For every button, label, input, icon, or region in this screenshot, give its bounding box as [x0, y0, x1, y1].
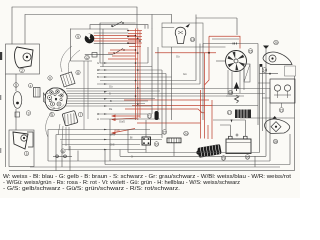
svg-text:G/S: G/S [110, 143, 115, 147]
wire vert x78 [77, 151, 79, 162]
middle vertical drops [48, 29, 255, 171]
headlamp 5 outer lumpy [45, 88, 67, 111]
red wires from rotary [94, 36, 140, 60]
headlamp bulb a [50, 91, 53, 94]
wire red r5 [110, 49, 136, 51]
label 9 [76, 34, 81, 39]
horn 2 dot [26, 56, 28, 58]
fuse box narrow [244, 64, 250, 82]
headlamp ticks [47, 92, 64, 108]
regulator stems [274, 91, 291, 98]
wire red x200 [200, 90, 202, 139]
wire red rung 4 [128, 39, 142, 41]
label 21 [279, 108, 284, 113]
connector row symbols [53, 155, 72, 157]
wire [243, 66, 245, 90]
label 11 [147, 114, 152, 119]
coil end cap [196, 150, 200, 154]
wire rail x262.3 [261, 67, 263, 131]
wire y73.7 link [260, 73, 279, 75]
label 24 [184, 131, 189, 136]
contact dot [113, 52, 115, 54]
fuel gauge cross [178, 31, 183, 34]
flasher relay 24 [167, 138, 181, 143]
bottom nest rows [9, 153, 295, 171]
label 7 [78, 112, 83, 117]
svg-text:25: 25 [274, 140, 278, 144]
wire red vertical v3 [139, 31, 141, 119]
wire row y161 [48, 160, 270, 162]
rotary light switch [85, 34, 94, 43]
wire row y63 [100, 62, 148, 64]
red middle rows [112, 100, 212, 133]
svg-text:W/R: W/R [114, 129, 121, 133]
left outer vertical [5, 74, 7, 167]
svg-text:H: H [97, 117, 99, 121]
wire top frame 2 [25, 14, 172, 16]
battery plus [236, 134, 239, 137]
fuse diagonal [244, 64, 250, 82]
wire red rung 3 [128, 36, 142, 38]
label 4 [28, 83, 32, 87]
wire [94, 43, 136, 45]
wire row y88 [66, 88, 270, 90]
brake box bottom left [9, 130, 34, 167]
tail lamp link y43.5 [203, 43, 258, 45]
wire red r6 [108, 52, 138, 54]
wire vert x48 [47, 130, 49, 162]
headlamp bulb c [60, 94, 63, 97]
wire vert x146 low2 [145, 145, 147, 153]
wire row y101 [67, 100, 149, 102]
label 20 [274, 40, 279, 45]
junction dot [269, 73, 271, 75]
brake bracket [27, 132, 33, 147]
label 3b [24, 151, 29, 156]
wire red rung 6 [129, 46, 141, 48]
edge tear mark 2 [0, 95, 1, 100]
rear lamp housing 19 [263, 52, 292, 64]
headlamp bulb i [49, 99, 51, 101]
switch contact S2 [114, 49, 123, 55]
wire red rung 5 [128, 42, 142, 44]
up arrow dark [273, 116, 277, 119]
left inner vertical [15, 74, 17, 130]
headlamp bracket [44, 93, 46, 103]
label 22 [162, 130, 167, 135]
label 18 [228, 90, 233, 95]
label 16 [245, 155, 250, 160]
junction dot [208, 52, 210, 54]
wire vert x105 [104, 150, 106, 165]
wire rail x196 [195, 15, 197, 81]
wire red row y105 [132, 105, 212, 107]
fuel gauge arrow [186, 24, 191, 28]
svg-text:S: S [131, 155, 133, 159]
wire [136, 7, 138, 29]
wire reg links [258, 83, 270, 98]
label 15 [248, 49, 253, 54]
wire row y149 [65, 149, 146, 151]
wire [151, 15, 153, 29]
wire row y73 [97, 73, 166, 75]
wire rail x259.5 [259, 67, 261, 153]
svg-text:5: 5 [51, 113, 53, 117]
wire vert x128 [127, 130, 129, 153]
CDI wires below flywheel [226, 66, 244, 96]
label small circle [61, 149, 65, 153]
wire red y53 [155, 52, 216, 54]
tail lamp 20 small dark [263, 46, 269, 50]
wire row y66 [100, 66, 152, 68]
bottom frame line a [30, 166, 280, 168]
label 12 [85, 55, 90, 60]
striped box 17 [235, 110, 251, 119]
battery 16 [226, 139, 251, 154]
tail lamp link y47 [203, 46, 226, 48]
svg-text:Gü: Gü [176, 55, 180, 59]
red arrowhead c [111, 132, 116, 135]
wire row y77 [100, 76, 172, 78]
stripes [238, 110, 247, 119]
label 5 [50, 112, 55, 117]
svg-text:9: 9 [77, 35, 79, 39]
wire row labels left [97, 55, 187, 159]
wire row y106 [65, 105, 152, 107]
label 6 [48, 76, 52, 80]
wire red r1 [94, 35, 136, 37]
label 14 [262, 68, 267, 73]
wire vert x152 [151, 29, 153, 115]
svg-text:G: G [97, 61, 99, 65]
junction dots on ladder [127, 30, 141, 105]
wire red vertical v1 [135, 29, 137, 121]
wire [94, 32, 128, 34]
bottom frame line b [9, 170, 295, 172]
wire vert x255 [254, 156, 256, 167]
regulator coil b [284, 85, 290, 91]
label 19 [221, 156, 226, 161]
headlamp bulb g [54, 93, 56, 95]
wire vert x148 [147, 47, 149, 63]
headlamp inner arc a [49, 88, 63, 92]
regulator stem down [281, 103, 283, 107]
wire red r2 [94, 37, 138, 39]
wire rail x266 [265, 47, 267, 156]
wire row y93 [67, 93, 265, 95]
wire red r3 [94, 40, 140, 42]
svg-text:S: S [109, 92, 111, 96]
label 8 [76, 70, 80, 74]
headlamp inner arc b [48, 105, 64, 109]
battery wire a [220, 125, 230, 136]
label 2 [20, 68, 25, 73]
label 1 [14, 83, 19, 88]
svg-text:6: 6 [49, 77, 51, 81]
svg-text:24: 24 [184, 132, 188, 136]
wire red x212 [211, 100, 213, 139]
wire vert x171 [171, 47, 173, 120]
wire vert x162 [161, 70, 163, 138]
wire y118 [240, 117, 295, 119]
wire rail x294.5 [294, 76, 296, 171]
battery inner line [226, 142, 251, 144]
wire row y80 [100, 80, 196, 82]
wire row y134 [56, 134, 162, 136]
svg-text:2: 2 [21, 69, 23, 73]
wire rail x203 [202, 44, 204, 121]
connector circle b [64, 155, 67, 158]
contact dot [123, 49, 125, 51]
headlamp bulb f [57, 102, 61, 106]
flasher hatch [169, 138, 179, 143]
wire row y70 [97, 69, 162, 71]
wire red coil feed [207, 125, 209, 139]
headlamp inner small dots [49, 91, 62, 105]
wire row y164 [105, 164, 290, 166]
wire right top link [196, 18, 237, 35]
box 4 hatch [36, 88, 39, 98]
square dots [143, 138, 149, 144]
wire row y103 [66, 103, 145, 105]
wire row y98 [67, 98, 155, 100]
wire row y91 [67, 90, 161, 92]
wire vert x120 [119, 150, 121, 157]
svg-text:B: B [110, 99, 112, 103]
battery terminal a [229, 136, 233, 139]
dark connector square [260, 64, 263, 67]
wire row y114 [97, 113, 152, 115]
wire handlebar top [71, 28, 129, 30]
wire row y152 [128, 152, 260, 154]
wire row y96 [67, 95, 240, 97]
ignition coil dark ribbed [197, 144, 221, 158]
fin dot [275, 126, 277, 128]
wire rail x290 [289, 134, 291, 165]
box 4 [34, 88, 41, 98]
row end arrows [104, 62, 107, 150]
edge tear mark 3 [0, 148, 1, 153]
wire flywheel left link [216, 60, 226, 62]
wire red x204 [204, 53, 206, 139]
wire brake contact feed [100, 22, 136, 24]
middle harness rows upper [48, 63, 270, 150]
right rails [240, 44, 295, 171]
label 25 [273, 139, 278, 144]
wire [11, 7, 13, 44]
wire vert x70 [69, 146, 71, 171]
wire rail x200g [199, 44, 201, 85]
label 3 [26, 111, 31, 116]
down arrow [231, 120, 233, 123]
fuel gauge 13 body [175, 27, 185, 43]
red arrowhead b [111, 118, 116, 121]
wire red row y109 [125, 109, 205, 113]
wire red fan a [112, 115, 140, 117]
wire vert x166 [165, 74, 167, 131]
svg-text:15: 15 [249, 50, 253, 54]
wire red diag c [112, 129, 135, 134]
wire lower contact feed [85, 54, 113, 56]
battery wire b [213, 120, 245, 136]
headlamp bulb d [48, 96, 52, 100]
wire [99, 23, 101, 63]
device 8 tilted box [60, 72, 75, 87]
svg-text:- G/S: gelb/schwarz - Gü/S: gr: - G/S: gelb/schwarz - Gü/S: grün/schwarz… [3, 186, 180, 192]
small box below lamp [15, 112, 20, 117]
wire vert x174 [173, 143, 175, 156]
headlamp center dot [55, 98, 57, 100]
svg-text:19: 19 [222, 157, 226, 161]
flywheel magneto 15 [226, 51, 247, 72]
wire row y139 [60, 139, 162, 141]
box fuel gauge 13 [162, 23, 203, 47]
red harness ladder [128, 29, 142, 121]
red arrowhead a [111, 115, 116, 118]
rear lamp ring [269, 55, 276, 62]
brake pedal 3 wedge [13, 132, 28, 149]
svg-text:7: 7 [80, 113, 82, 117]
wire [102, 29, 104, 67]
wire red r7 [112, 55, 136, 57]
contact dot [122, 22, 124, 24]
cable curve a [61, 46, 72, 72]
brake pedal dot [23, 137, 25, 139]
brake pedal ring [21, 135, 27, 141]
wire red row y123 [137, 122, 201, 124]
regulator coil a [274, 85, 280, 91]
right mid rails [196, 15, 237, 121]
wire vert x146 low [145, 120, 147, 137]
wire red r8 [108, 58, 138, 60]
fin lamp 25 [265, 119, 290, 134]
wire row y144 [62, 144, 140, 146]
wire [171, 15, 173, 24]
svg-text:3: 3 [26, 152, 28, 156]
wire red row y100 [124, 99, 209, 101]
flywheel hub [234, 59, 238, 63]
wire [231, 72, 233, 96]
label 13 [190, 37, 195, 42]
wire vert x158 [157, 47, 159, 111]
wire row y84 [97, 83, 200, 85]
headlamp bulb b [56, 90, 59, 93]
svg-text:12: 12 [85, 56, 89, 60]
wire [226, 95, 244, 97]
svg-text:17: 17 [228, 111, 232, 115]
ignition switch 7 tilted [62, 110, 78, 126]
headlamp bulb h [60, 98, 62, 100]
switch 7 drop wires [58, 124, 69, 151]
wire [239, 70, 241, 93]
wire red fan b [112, 118, 137, 120]
rotary white slice [86, 34, 91, 39]
svg-text:20: 20 [274, 41, 278, 45]
wire red vertical x209 [205, 36, 210, 85]
wire rail x258 [257, 44, 259, 126]
horn 2 body [15, 47, 33, 68]
horn box [6, 44, 40, 74]
rear lamp bracket box [285, 66, 296, 76]
wire red flywheel top [209, 36, 240, 48]
wire row y129 [48, 129, 150, 131]
edge tear mark [0, 52, 2, 60]
svg-text:W/S: W/S [110, 133, 115, 137]
wire [227, 70, 229, 95]
connector circle a [56, 155, 59, 158]
svg-text:21: 21 [280, 109, 284, 113]
wire vert x62 [61, 141, 63, 167]
svg-text:10: 10 [155, 143, 159, 147]
contact dot [111, 25, 113, 27]
handlebar drop wires [84, 61, 88, 130]
battery terminal b [244, 136, 248, 139]
svg-text:11: 11 [148, 115, 152, 119]
wire [24, 15, 26, 45]
wire top middle box [90, 24, 148, 26]
flywheel blades [228, 52, 245, 71]
connector capsule 11 [155, 111, 159, 120]
ignition arrow [234, 83, 238, 91]
wire row y156 [120, 155, 266, 157]
wire red vertical v2 [137, 29, 139, 121]
wire vert x56 [55, 135, 57, 171]
connector 12 box [92, 53, 97, 58]
rotary dot [89, 38, 91, 40]
rear lamp dot [271, 57, 273, 59]
lamp 1 ellipse [13, 92, 22, 109]
wire inside box [162, 27, 174, 29]
spark plug squiggle [235, 95, 239, 103]
svg-text:Gü: Gü [183, 72, 187, 76]
wire vert x110 [109, 119, 111, 161]
svg-text:Gü: Gü [109, 85, 113, 89]
svg-text:4: 4 [30, 84, 32, 88]
wire red rung 2 [128, 33, 142, 35]
headlamp bulb e [51, 102, 55, 106]
switch square 22 [142, 137, 151, 145]
gray row y105 extension [212, 105, 258, 107]
wire row y119 [100, 118, 160, 120]
red main run to engine [155, 36, 240, 139]
lamp 1 dot [16, 102, 19, 105]
fin diamond [271, 122, 281, 132]
gray line y39 in red box [212, 38, 239, 40]
wire red rung 1 [128, 30, 142, 32]
connector tabs [233, 43, 237, 45]
svg-text:18: 18 [229, 91, 233, 95]
handlebar switch box 9 [71, 29, 93, 62]
paper background [0, 0, 300, 198]
svg-text:1: 1 [15, 84, 17, 88]
cable curve b [68, 50, 80, 73]
label 10 [154, 142, 159, 147]
wire [90, 25, 148, 29]
switch contact S1 [112, 22, 122, 28]
wire rail x270 [269, 88, 271, 161]
svg-text:22: 22 [163, 131, 167, 135]
wire top frame 1 [12, 6, 137, 8]
svg-text:3: 3 [28, 112, 30, 116]
label 17 [227, 110, 232, 115]
regulator box 21 [270, 79, 295, 103]
cable curve c [46, 112, 52, 137]
horn 2 ring [23, 53, 31, 61]
svg-text:13: 13 [191, 38, 195, 42]
svg-text:8: 8 [77, 71, 79, 75]
svg-text:Gü/S: Gü/S [119, 120, 125, 124]
